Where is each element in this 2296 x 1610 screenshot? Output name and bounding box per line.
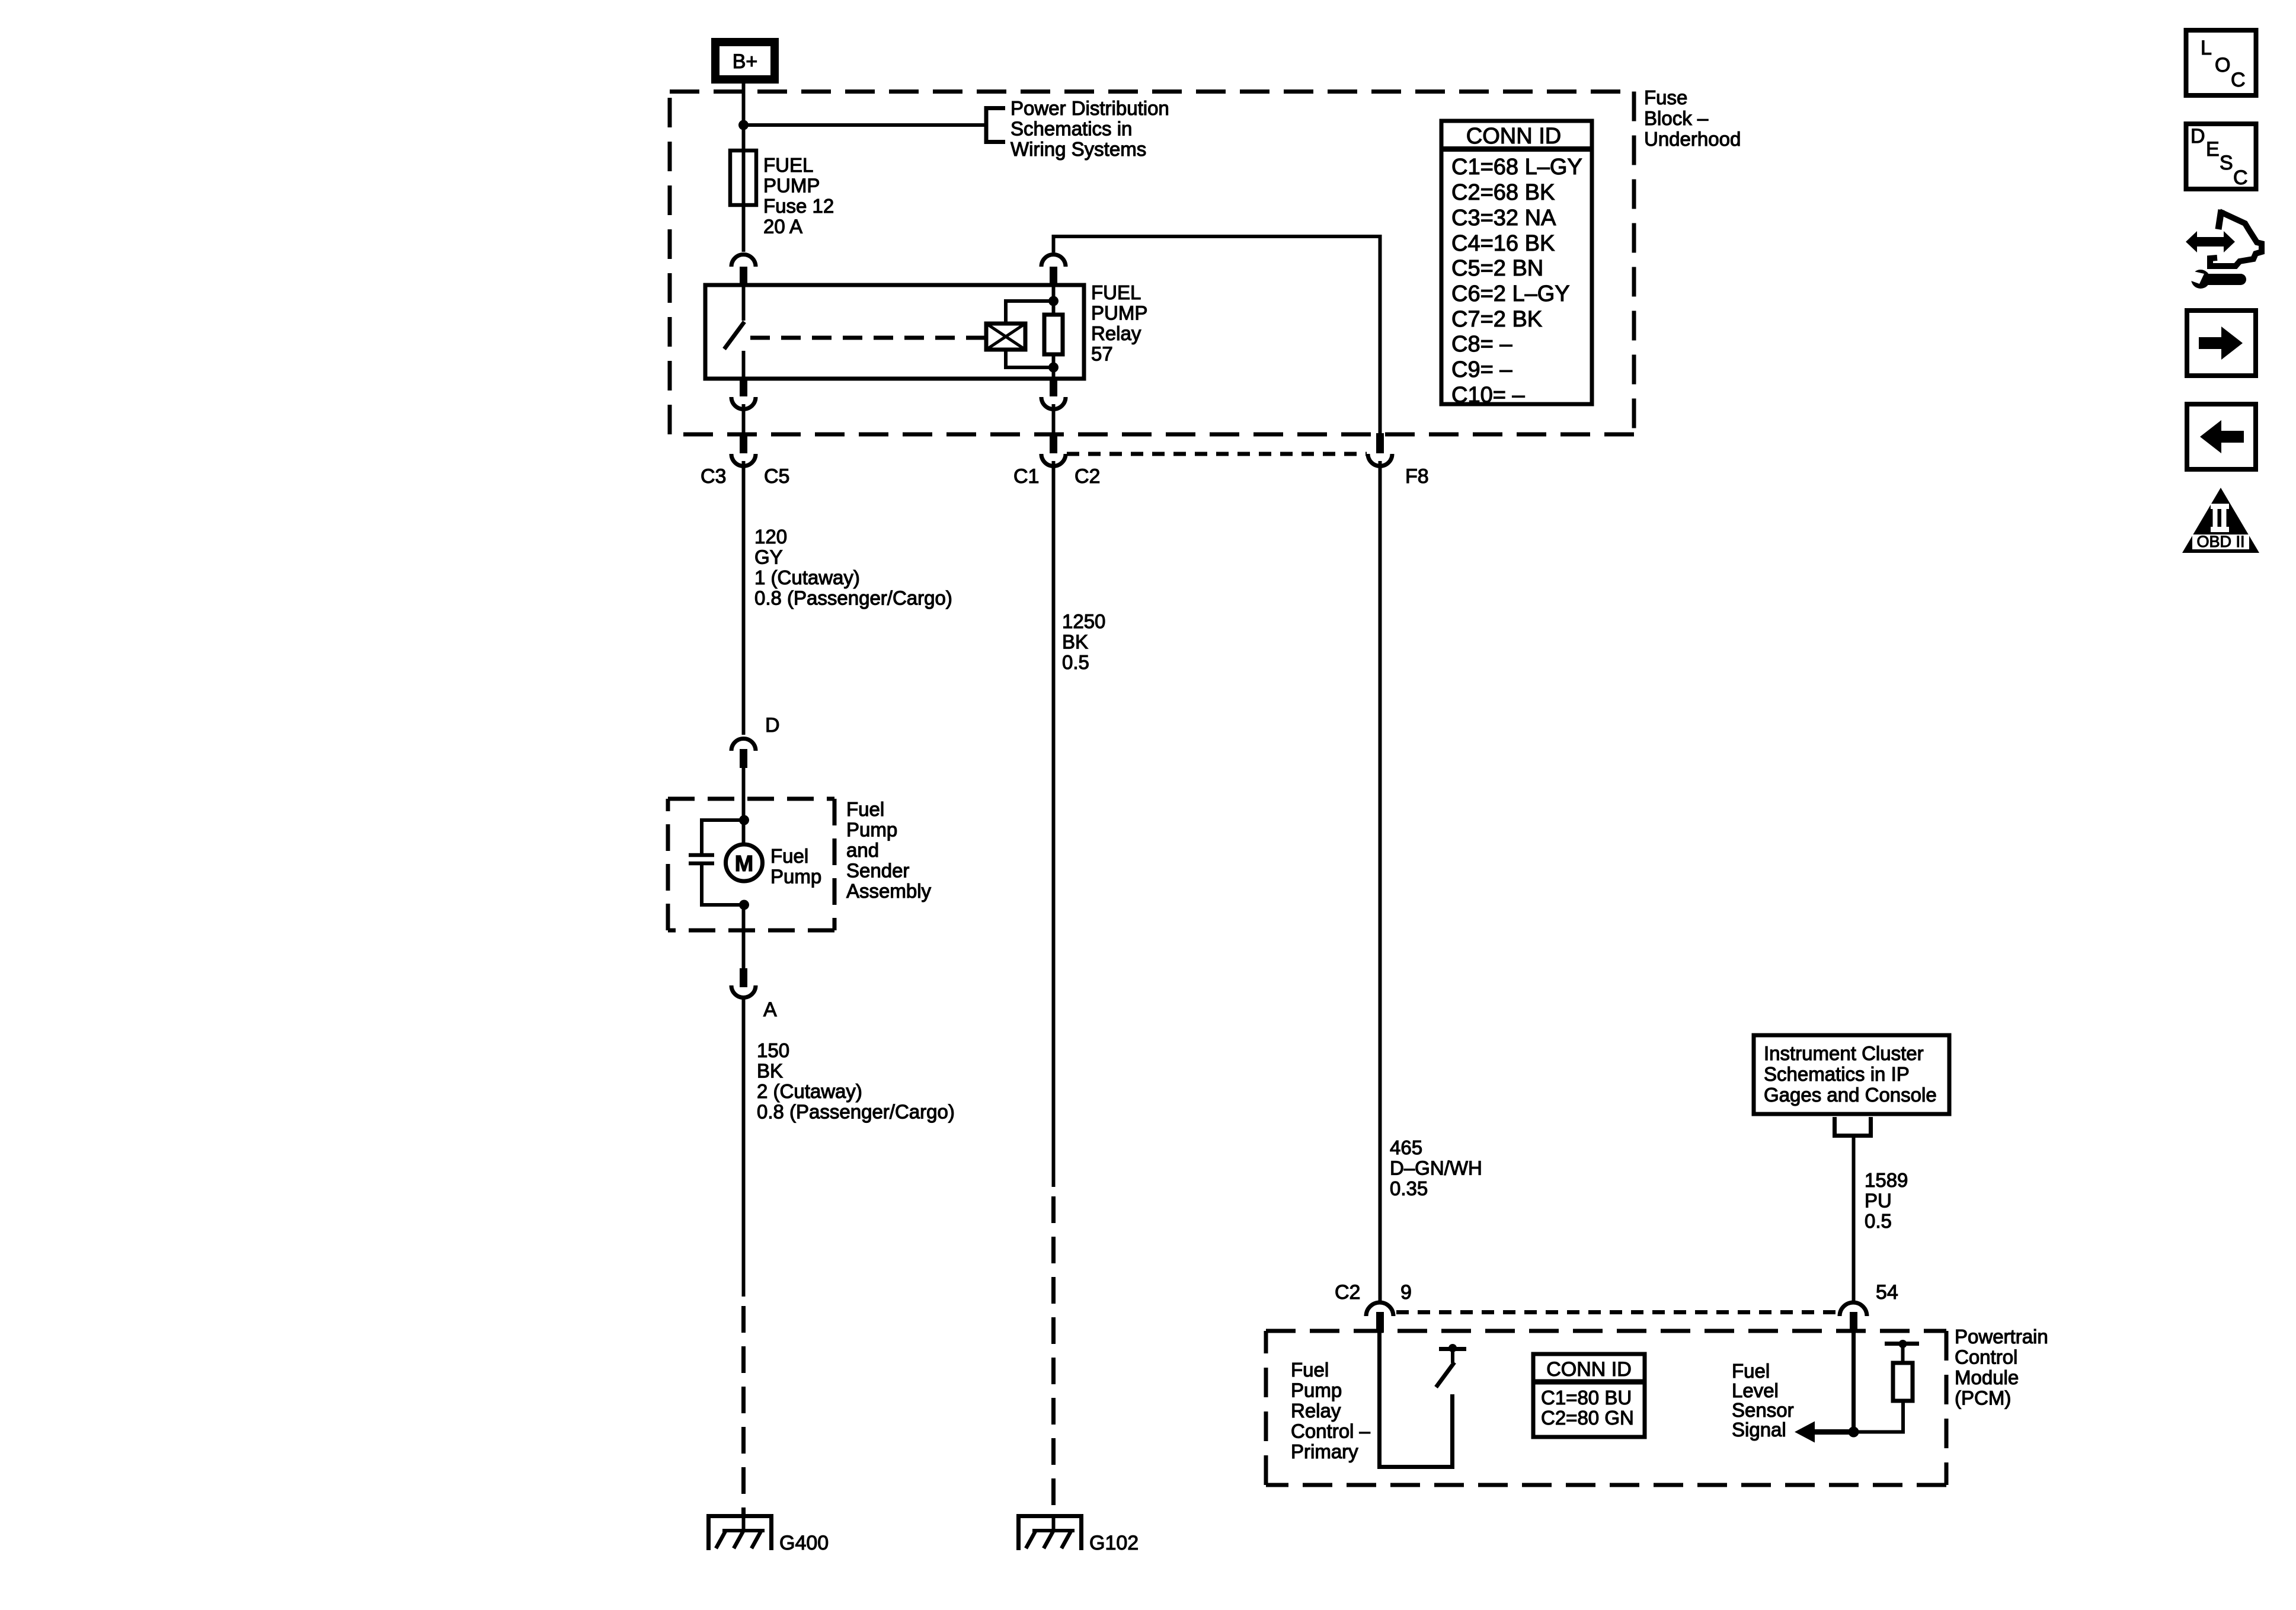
icon: LOC button: [2186, 30, 2256, 95]
CONN ID table fuse block: [1441, 121, 1592, 408]
wire D to fuel pump: [742, 768, 746, 844]
node: coil/resistor bottom junction: [1048, 363, 1059, 373]
svg-text:54: 54: [1876, 1281, 1898, 1304]
svg-text:D–GN/WH: D–GN/WH: [1390, 1157, 1482, 1179]
wire connector 54 down to sensor node: [1851, 1333, 1856, 1432]
wire 1589 PU from instrument cluster to connector 54: [1852, 1138, 1856, 1301]
relay resistor: [1044, 315, 1063, 354]
fuse FUEL PUMP Fuse 12 20A: [730, 151, 756, 205]
ground G400: [706, 1514, 829, 1554]
svg-text:C7=2 BK: C7=2 BK: [1451, 307, 1542, 332]
svg-text:C1=68 L–GY: C1=68 L–GY: [1451, 155, 1582, 180]
fuse block underhood dashed box: [670, 92, 1634, 435]
dotted line connector 9 to connector 54 (connector face): [1396, 1310, 1838, 1314]
wire relay right vertical bottom: [1052, 354, 1056, 379]
wire 150 BK from A (solid): [742, 996, 746, 1297]
node: fuel level sensor signal junction: [1849, 1427, 1859, 1438]
svg-text:CONN ID: CONN ID: [1546, 1358, 1632, 1381]
dotted line C2 to F8 (connector face): [1067, 452, 1367, 456]
svg-text:Power Distribution: Power Distribution: [1011, 97, 1169, 119]
wire 1250 BK from C2 (solid): [1052, 461, 1056, 1187]
svg-text:C5=2 BN: C5=2 BN: [1451, 256, 1543, 281]
svg-text:Fuse: Fuse: [1644, 87, 1687, 108]
wire pump to A: [742, 905, 746, 968]
B+ battery terminal: [715, 42, 775, 79]
svg-text:Sender: Sender: [846, 860, 909, 882]
component bracket below instrument cluster box: [1833, 1117, 1873, 1136]
svg-text:Pump: Pump: [1291, 1379, 1342, 1401]
wire 120 GY from C5 to D: [742, 461, 746, 735]
svg-text:Signal: Signal: [1732, 1419, 1786, 1441]
svg-text:Relay: Relay: [1291, 1400, 1341, 1422]
svg-text:Pump: Pump: [770, 866, 821, 888]
svg-text:20 A: 20 A: [763, 216, 802, 238]
connector C3/C5 at fuse block: [731, 433, 756, 466]
PCM dashed box: [1266, 1331, 1946, 1485]
capacitor (suppression) plates: [689, 855, 714, 863]
svg-text:A: A: [763, 998, 777, 1021]
svg-text:Wiring Systems: Wiring Systems: [1011, 138, 1146, 160]
wire 150 BK dashed continuation to G400: [741, 1306, 746, 1518]
svg-text:1250: 1250: [1062, 610, 1105, 632]
svg-text:Pump: Pump: [846, 819, 897, 841]
svg-text:Level: Level: [1732, 1379, 1779, 1401]
node: resistor supply contact: [1899, 1340, 1907, 1348]
PCM CONN ID table: [1533, 1354, 1645, 1437]
svg-text:C2=68 BK: C2=68 BK: [1451, 180, 1555, 205]
node: coil/resistor top junction: [1048, 296, 1059, 306]
label: Fuse Block - Underhood: [1644, 87, 1741, 150]
relay switch contacts: [724, 285, 744, 379]
label: FUEL PUMP Fuse 12 20 A: [763, 154, 834, 238]
label: Fuel Pump Relay Control - Primary: [1291, 1359, 1371, 1462]
svg-text:C2: C2: [1075, 465, 1100, 488]
svg-text:C3=32 NA: C3=32 NA: [1451, 206, 1556, 231]
wire relay feed up and over to F8: [1054, 236, 1380, 434]
svg-text:C: C: [2231, 69, 2246, 91]
svg-text:BK: BK: [757, 1060, 783, 1082]
svg-text:150: 150: [757, 1039, 789, 1061]
wire relay left output to C5: [742, 404, 746, 434]
wire relay right output to C2: [1052, 404, 1056, 434]
label: Powertrain Control Module (PCM): [1955, 1326, 2048, 1409]
connector: relay output left (pin + arc): [731, 379, 756, 409]
svg-text:0.35: 0.35: [1390, 1177, 1428, 1199]
connector A (pin + arc): [731, 968, 756, 998]
svg-text:G102: G102: [1089, 1532, 1139, 1554]
connector D (arc + pin): [731, 738, 756, 768]
motor M fuel pump: [726, 844, 763, 881]
svg-text:Sensor: Sensor: [1732, 1399, 1794, 1421]
svg-text:Block –: Block –: [1644, 107, 1709, 129]
icon: vehicle diagnostics (car outline, double arrow, wrench): [2186, 210, 2262, 289]
svg-text:B+: B+: [733, 50, 758, 73]
svg-text:D: D: [2191, 125, 2205, 148]
svg-text:G400: G400: [779, 1532, 829, 1554]
svg-text:C4=16 BK: C4=16 BK: [1451, 231, 1555, 256]
svg-text:GY: GY: [754, 546, 783, 568]
label: Fuel Level Sensor Signal: [1732, 1360, 1794, 1441]
label: wire 120 GY: [754, 526, 952, 609]
label: wire 150 BK: [757, 1039, 955, 1123]
svg-text:0.5: 0.5: [1062, 651, 1089, 673]
wire 465 D-GN/WH from F8 to PCM connector 9: [1379, 461, 1382, 1301]
connector 54 at PCM (arc + pin): [1840, 1302, 1867, 1333]
icon: OBD II emblem: [2182, 488, 2259, 553]
svg-text:120: 120: [754, 526, 787, 548]
svg-text:PU: PU: [1865, 1190, 1892, 1212]
svg-text:and: and: [846, 839, 879, 861]
connector: fuse output to relay (female arc + male pin): [731, 255, 756, 286]
svg-text:Fuel: Fuel: [1291, 1359, 1329, 1381]
svg-text:57: 57: [1091, 343, 1113, 365]
wire B+ to fuse: [742, 84, 746, 252]
label: Fuel Pump (motor): [770, 845, 821, 888]
fuel pump and sender assembly dashed box: [668, 799, 834, 930]
connector: relay output right (pin + arc): [1041, 379, 1066, 409]
wire coil to relay feed (top bracket): [1006, 301, 1049, 324]
svg-text:E: E: [2206, 138, 2220, 161]
PCM driver switch (fuel pump relay control): [1436, 1344, 1466, 1387]
svg-text:Fuse 12: Fuse 12: [763, 195, 834, 217]
svg-text:PUMP: PUMP: [1091, 302, 1147, 324]
svg-text:FUEL: FUEL: [763, 154, 813, 176]
connector C1/C2 at fuse block: [1041, 433, 1066, 466]
svg-text:C8= –: C8= –: [1451, 332, 1512, 357]
svg-text:2 (Cutaway): 2 (Cutaway): [757, 1080, 862, 1102]
label: Fuel Pump and Sender Assembly: [846, 798, 932, 902]
svg-text:Fuel: Fuel: [770, 845, 808, 867]
connector: relay feed from F8 (arc + pin): [1041, 255, 1066, 286]
svg-text:C3: C3: [701, 465, 726, 488]
svg-text:S: S: [2220, 152, 2233, 174]
svg-text:Powertrain: Powertrain: [1955, 1326, 2048, 1347]
svg-text:C1: C1: [1013, 465, 1039, 488]
svg-text:1 (Cutaway): 1 (Cutaway): [754, 566, 860, 588]
svg-text:C2: C2: [1335, 1281, 1360, 1304]
label: wire 1589 PU: [1865, 1169, 1908, 1232]
svg-text:FUEL: FUEL: [1091, 281, 1141, 303]
connector F8 at fuse block: [1368, 433, 1392, 466]
svg-text:BK: BK: [1062, 631, 1088, 653]
svg-text:L: L: [2201, 37, 2212, 59]
wire connector 9 into PCM driver: [1380, 1333, 1453, 1467]
wire 1250 BK dashed continuation to G102: [1051, 1196, 1056, 1518]
svg-text:Control: Control: [1955, 1346, 2017, 1368]
supply contact T-bar: [1885, 1342, 1919, 1346]
svg-text:Assembly: Assembly: [846, 880, 932, 902]
svg-text:Schematics in IP: Schematics in IP: [1764, 1063, 1910, 1085]
wire sensor node to pull-up resistor: [1854, 1401, 1904, 1432]
wire resistor top to supply contact: [1901, 1346, 1905, 1363]
svg-text:C10= –: C10= –: [1451, 383, 1525, 408]
node: junction at B+ feed: [738, 120, 749, 130]
svg-text:Relay: Relay: [1091, 322, 1141, 344]
capacitor branch wiring: [702, 820, 744, 905]
svg-text:M: M: [735, 852, 754, 876]
svg-text:O: O: [2215, 54, 2230, 76]
connector 9 at PCM (arc + pin): [1366, 1302, 1393, 1333]
relay actuation dashed line: [750, 336, 985, 340]
svg-text:C: C: [2233, 167, 2248, 189]
svg-text:Primary: Primary: [1291, 1441, 1358, 1462]
svg-text:Schematics in: Schematics in: [1011, 118, 1132, 140]
label: Power Distribution Schematics in Wiring Systems: [1011, 97, 1169, 160]
node: fuel pump bottom junction: [739, 900, 749, 910]
svg-text:1589: 1589: [1865, 1169, 1908, 1191]
svg-text:C9= –: C9= –: [1451, 357, 1512, 382]
svg-text:C2=80 GN: C2=80 GN: [1541, 1407, 1634, 1429]
icon: DESC button: [2186, 124, 2256, 189]
svg-text:OBD II: OBD II: [2196, 533, 2244, 550]
label: wire 1250 BK: [1062, 610, 1105, 673]
arrow fuel level sensor signal: [1795, 1422, 1854, 1443]
icon: previous page arrow button: [2187, 404, 2256, 469]
wire junction to off-page bracket: [744, 123, 987, 127]
ground G102: [1016, 1514, 1139, 1554]
svg-text:Underhood: Underhood: [1644, 128, 1741, 150]
svg-text:(PCM): (PCM): [1955, 1387, 2011, 1409]
node: fuel pump top junction: [739, 815, 749, 825]
svg-text:F8: F8: [1405, 465, 1429, 488]
svg-text:C6=2 L–GY: C6=2 L–GY: [1451, 281, 1570, 306]
svg-text:9: 9: [1400, 1281, 1412, 1304]
relay box FUEL PUMP Relay 57: [705, 285, 1084, 379]
svg-text:CONN ID: CONN ID: [1466, 124, 1561, 149]
svg-text:Fuel: Fuel: [1732, 1360, 1770, 1382]
svg-text:0.8 (Passenger/Cargo): 0.8 (Passenger/Cargo): [757, 1101, 955, 1123]
svg-text:0.5: 0.5: [1865, 1210, 1892, 1232]
wire relay right vertical top: [1052, 285, 1056, 315]
svg-text:0.8 (Passenger/Cargo): 0.8 (Passenger/Cargo): [754, 587, 952, 609]
svg-text:C5: C5: [764, 465, 789, 488]
svg-text:PUMP: PUMP: [763, 175, 820, 197]
label: wire 465 D-GN/WH: [1390, 1137, 1482, 1199]
svg-text:D: D: [765, 714, 780, 737]
svg-text:Module: Module: [1955, 1366, 2019, 1388]
off-page reference bracket (Power Distribution): [986, 106, 1005, 144]
svg-text:465: 465: [1390, 1137, 1422, 1158]
svg-text:C1=80 BU: C1=80 BU: [1541, 1387, 1632, 1409]
svg-text:Instrument Cluster: Instrument Cluster: [1764, 1042, 1924, 1064]
svg-text:Fuel: Fuel: [846, 798, 884, 820]
relay coil (box with X): [986, 324, 1025, 350]
icon: next page arrow button: [2187, 311, 2256, 376]
label: FUEL PUMP Relay 57: [1091, 281, 1147, 365]
wire coil to relay output (bottom bracket): [1006, 350, 1049, 367]
svg-text:Gages and Console: Gages and Console: [1764, 1084, 1937, 1106]
svg-text:Control –: Control –: [1291, 1420, 1371, 1442]
PCM pull-up resistor: [1893, 1363, 1913, 1401]
instrument cluster reference box: [1754, 1035, 1949, 1114]
